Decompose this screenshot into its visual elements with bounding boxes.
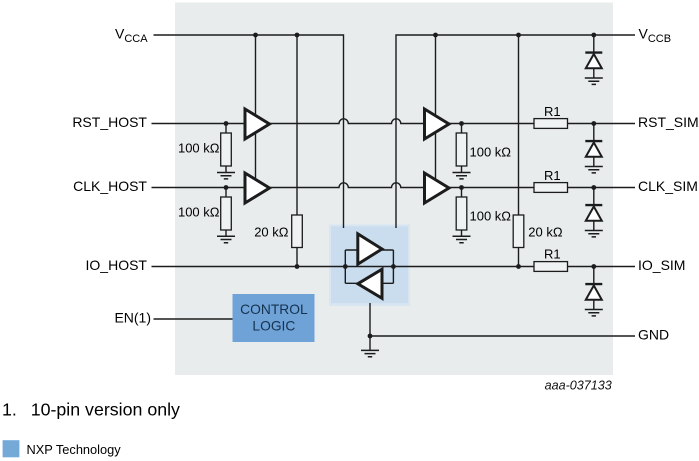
svg-text:R1: R1: [544, 247, 561, 262]
svg-text:20 kΩ: 20 kΩ: [528, 224, 563, 239]
svg-text:aaa-037133: aaa-037133: [545, 379, 612, 393]
svg-text:100 kΩ: 100 kΩ: [178, 205, 220, 220]
svg-text:20 kΩ: 20 kΩ: [254, 224, 289, 239]
svg-text:RST_SIM: RST_SIM: [638, 114, 699, 130]
svg-text:IO_SIM: IO_SIM: [638, 257, 685, 273]
svg-text:CONTROL: CONTROL: [240, 302, 308, 317]
svg-text:GND: GND: [638, 327, 669, 343]
svg-text:CLK_HOST: CLK_HOST: [73, 178, 147, 194]
svg-text:1.: 1.: [2, 400, 17, 420]
svg-text:RST_HOST: RST_HOST: [72, 114, 147, 130]
svg-text:EN(1): EN(1): [114, 310, 151, 326]
svg-text:R1: R1: [544, 104, 561, 119]
svg-text:R1: R1: [544, 168, 561, 183]
svg-text:10-pin version only: 10-pin version only: [31, 400, 180, 420]
svg-text:IO_HOST: IO_HOST: [86, 257, 148, 273]
svg-text:LOGIC: LOGIC: [252, 319, 295, 334]
svg-text:CLK_SIM: CLK_SIM: [638, 178, 698, 194]
svg-text:100 kΩ: 100 kΩ: [178, 141, 220, 156]
svg-text:100 kΩ: 100 kΩ: [470, 208, 512, 223]
svg-text:100 kΩ: 100 kΩ: [470, 144, 512, 159]
svg-text:NXP Technology: NXP Technology: [27, 442, 122, 457]
